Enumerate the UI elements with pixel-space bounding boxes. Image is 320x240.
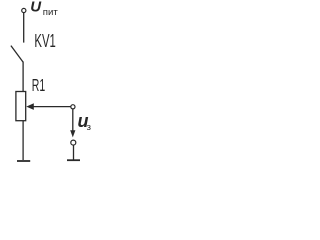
arrow u3 head (70, 130, 75, 137)
node junction terminal (71, 105, 75, 109)
ground left (17, 160, 30, 162)
switch KV1 blade (11, 46, 23, 62)
svg-text:KV1: KV1 (34, 31, 55, 51)
terminal bottom right (71, 140, 76, 145)
svg-text:пит: пит (43, 7, 58, 17)
wiper arrowhead (26, 103, 34, 110)
wire resistor to ground left (22, 121, 24, 160)
wire top vertical (23, 13, 25, 43)
svg-text:U: U (30, 0, 42, 16)
wiper arrow line (31, 106, 71, 108)
wire terminal to ground right (73, 145, 75, 159)
svg-text:з: з (87, 122, 91, 133)
terminal top (U pit) (22, 8, 26, 12)
wire node down (72, 109, 74, 131)
ground right (67, 159, 80, 161)
resistor R1 body (16, 92, 26, 121)
wire switch to resistor (22, 62, 24, 92)
svg-text:R1: R1 (32, 75, 45, 95)
